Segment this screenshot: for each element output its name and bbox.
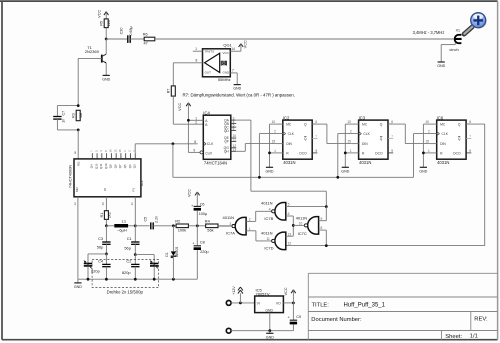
wire IC7B in5 to QA node <box>286 206 327 208</box>
IC2 MC and R tie to ground <box>270 123 283 125</box>
svg-text:15: 15 <box>347 140 351 144</box>
IC IC3 4031N box <box>359 120 388 159</box>
svg-text:OUT: OUT <box>205 70 212 74</box>
svg-text:VCC: VCC <box>284 287 288 295</box>
svg-text:4031N: 4031N <box>283 160 295 165</box>
svg-text:R3: R3 <box>72 113 76 118</box>
IC6 unconnected pins 7 and 9 <box>466 137 471 139</box>
svg-text:6: 6 <box>469 120 471 124</box>
capacitor C5 2.2n <box>135 225 149 227</box>
svg-text:R7: R7 <box>167 89 171 94</box>
svg-text:QH: QH <box>224 150 230 154</box>
svg-text:Q4: Q4 <box>90 164 94 168</box>
wire IC7A out to R4 <box>218 225 232 227</box>
svg-text:Q3: Q3 <box>133 164 137 168</box>
IC3 CLK wire from rail <box>338 133 359 135</box>
svg-text:GND: GND <box>74 285 82 289</box>
resistor R5 120 <box>105 19 107 28</box>
wire pad to regulator <box>231 302 255 304</box>
svg-text:14: 14 <box>231 47 235 51</box>
svg-text:2: 2 <box>350 130 352 134</box>
svg-text:2.2n: 2.2n <box>155 216 159 223</box>
capacitor C7 1n <box>56 106 58 117</box>
svg-text:120: 120 <box>107 20 111 26</box>
svg-text:9: 9 <box>193 149 195 153</box>
svg-text:Q: Q <box>458 137 461 141</box>
wire IC7C in9 to QA node <box>319 220 327 222</box>
node QA IC7B IC7C <box>325 205 328 208</box>
svg-text:C5: C5 <box>143 217 147 222</box>
svg-text:IC7A: IC7A <box>226 230 235 235</box>
svg-text:MR: MR <box>75 187 79 192</box>
svg-text:DCO: DCO <box>375 151 383 155</box>
svg-text:220µ: 220µ <box>200 250 209 254</box>
svg-text:8: 8 <box>321 226 323 230</box>
wire IC7D in13 feedback <box>286 235 294 237</box>
svg-text:Q: Q <box>458 123 461 127</box>
svg-text:Q6: Q6 <box>128 164 132 168</box>
resistor R2 100k <box>176 224 188 228</box>
wire IC1 pin12 to ground rail <box>77 197 79 279</box>
svg-text:Q5: Q5 <box>123 164 127 168</box>
regulator IC5 7805TV box <box>255 296 284 313</box>
node feedback rail junction <box>325 244 328 247</box>
IC6 Q output stub <box>466 123 470 125</box>
svg-text:VCC: VCC <box>98 10 102 18</box>
svg-text:IC3: IC3 <box>359 115 366 120</box>
svg-text:IC6: IC6 <box>437 115 444 120</box>
capacitor C1 56p <box>134 226 136 242</box>
wire QA to gate junction <box>236 119 251 121</box>
svg-text:Document Number:: Document Number: <box>311 317 362 323</box>
wire RC to IC1 pin 9 <box>77 130 79 159</box>
title block frame <box>308 272 497 274</box>
svg-text:DIN: DIN <box>440 142 446 146</box>
regulator GND pin wire <box>269 313 271 331</box>
svg-text:CLR: CLR <box>205 151 212 155</box>
wire IC7B in6 feedback <box>286 215 294 217</box>
svg-text:56k: 56k <box>207 227 213 232</box>
svg-text:11: 11 <box>233 138 237 142</box>
transistor T1 2N2369 <box>105 39 107 54</box>
capacitor C9 polarized <box>292 303 294 320</box>
wire T1 emitter to ground <box>105 63 107 75</box>
svg-text:4011N: 4011N <box>296 216 308 221</box>
svg-text:VI: VI <box>257 302 260 306</box>
resistor R3 1M <box>77 110 79 120</box>
resistor R6 47 <box>144 38 155 40</box>
magnifier zoom icon <box>464 13 487 34</box>
capacitor C8 220u polarized <box>196 226 198 245</box>
X1 ground branch <box>454 43 456 45</box>
QG1 pin 14 VCC <box>230 50 241 52</box>
oscillator QG1 55MHz box <box>203 49 231 77</box>
svg-text:C30: C30 <box>119 28 123 35</box>
svg-text:GND: GND <box>266 169 274 173</box>
ground IC2 <box>266 166 273 168</box>
resistor R1 <box>105 197 107 211</box>
wire IC7C out to feedback column <box>293 224 304 226</box>
svg-text:IC1: IC1 <box>140 180 144 186</box>
IC6 MC and R tie to ground <box>423 123 436 125</box>
svg-text:1/1: 1/1 <box>470 334 478 340</box>
svg-text:VO: VO <box>276 302 281 306</box>
svg-text:IC7B: IC7B <box>264 216 273 221</box>
svg-text:13: 13 <box>288 232 292 236</box>
svg-text:Q: Q <box>304 137 307 141</box>
svg-text:9: 9 <box>391 149 393 153</box>
svg-text:IC4: IC4 <box>203 110 210 115</box>
svg-text:R4: R4 <box>205 219 211 224</box>
wire IC7A in2 to IC7B out <box>246 220 256 222</box>
svg-text:15: 15 <box>426 140 430 144</box>
wire IC1 pin11 column <box>134 197 136 226</box>
svg-text:4011N: 4011N <box>261 230 273 235</box>
svg-text:GND: GND <box>437 64 445 68</box>
svg-text:7: 7 <box>232 69 234 73</box>
ground tank rail <box>77 279 79 283</box>
capacitor C30 0.68u <box>127 35 129 43</box>
svg-text:Q7: Q7 <box>118 164 122 168</box>
svg-text:Q14: Q14 <box>99 163 103 169</box>
ground regulator <box>269 331 271 333</box>
svg-text:IC7C: IC7C <box>298 231 307 236</box>
IC2 Q output stub <box>312 123 316 125</box>
IC IC4 74HCT164N box <box>203 115 231 159</box>
svg-text:C9: C9 <box>296 315 301 319</box>
wire clock distribution rail <box>173 176 414 178</box>
svg-text:2k2: 2k2 <box>107 212 111 218</box>
svg-text:MC: MC <box>440 123 446 127</box>
svg-text:R7: Dämpfungswiderstand. Wert: R7: Dämpfungswiderstand. Wert (ca 0R - 4… <box>183 93 295 98</box>
svg-text:MC: MC <box>286 123 292 127</box>
svg-text:9: 9 <box>315 149 317 153</box>
svg-text:4031N: 4031N <box>437 160 449 165</box>
IC4 pin A wire <box>188 119 203 121</box>
IC IC2 4031N box <box>283 120 312 159</box>
capacitor C3 56p <box>105 226 107 242</box>
svg-text:2N2369: 2N2369 <box>85 49 100 54</box>
wire IC7A in1 to IC7D out <box>246 230 256 232</box>
IC2 unconnected pins 7 and 9 <box>312 137 317 139</box>
svg-text:VCC: VCC <box>178 103 182 111</box>
svg-text:Huff_Puff_35_1: Huff_Puff_35_1 <box>344 303 386 309</box>
node L1 right <box>134 224 137 227</box>
node +12V branch <box>239 302 242 305</box>
svg-text:9: 9 <box>469 149 471 153</box>
svg-text:Q13: Q13 <box>94 163 98 169</box>
IC6 DIN stub <box>430 143 437 145</box>
svg-text:11: 11 <box>267 237 271 241</box>
svg-text:7: 7 <box>315 135 317 139</box>
VCC supply at regulator <box>292 296 294 303</box>
IC2 DIN stub <box>276 143 283 145</box>
page border frame <box>0 0 498 2</box>
svg-text:C1: C1 <box>127 236 132 241</box>
wire R6 to connector X1 <box>155 38 454 40</box>
wire R5 to node <box>105 28 107 39</box>
ground IC6 <box>420 166 427 168</box>
svg-text:10: 10 <box>347 120 351 124</box>
inductor L1 ~6uH <box>106 225 114 227</box>
wire IC2 Q to IC3 DIN <box>312 123 327 125</box>
svg-text:55MHz: 55MHz <box>218 77 231 82</box>
nand gate IC7C 4011N <box>308 217 319 235</box>
node C1 C2 trimmer <box>134 253 137 256</box>
ground T1 emitter <box>103 74 110 76</box>
svg-text:RD: RD <box>77 161 81 166</box>
svg-text:56p: 56p <box>97 245 104 250</box>
svg-text:8: 8 <box>194 140 196 144</box>
node IC4 A VCC <box>187 119 190 122</box>
IC1 top output pins <box>91 153 93 159</box>
svg-text:CLK: CLK <box>288 132 295 136</box>
svg-text:1n: 1n <box>61 119 65 123</box>
svg-text:Q9: Q9 <box>113 164 117 168</box>
svg-text:DIN: DIN <box>362 142 368 146</box>
wire QH to IC2 DIN <box>236 150 245 152</box>
svg-text:P1: P1 <box>132 188 136 192</box>
svg-text:Q8: Q8 <box>109 164 113 168</box>
svg-text:11: 11 <box>130 202 134 205</box>
IC6 CLK wire from rail <box>414 133 437 135</box>
VCC supply for R5 <box>104 12 106 15</box>
svg-text:8: 8 <box>196 59 198 63</box>
svg-text:TITLE:: TITLE: <box>312 302 330 308</box>
svg-text:Q10: Q10 <box>104 163 108 169</box>
svg-text:100k: 100k <box>178 228 186 233</box>
svg-text:VCC: VCC <box>243 40 247 48</box>
wire node to C30 <box>106 38 127 40</box>
svg-text:1: 1 <box>350 149 352 153</box>
svg-text:GND: GND <box>233 87 241 91</box>
svg-text:cinch: cinch <box>449 47 458 52</box>
svg-text:DCO: DCO <box>453 151 461 155</box>
IC3 MC and R tie to ground <box>345 123 358 125</box>
IC4 CLR pin with bubble <box>188 151 200 153</box>
svg-text:0.68µ: 0.68µ <box>129 25 133 35</box>
svg-text:4011N: 4011N <box>223 215 235 220</box>
svg-text:2: 2 <box>274 130 276 134</box>
svg-text:7: 7 <box>469 135 471 139</box>
svg-text:4: 4 <box>269 207 271 211</box>
svg-text:R5: R5 <box>100 21 104 26</box>
trimmer capacitor right <box>135 254 154 256</box>
svg-text:R1: R1 <box>100 213 104 218</box>
svg-text:CLK: CLK <box>207 142 214 146</box>
wire R7 to IC4 B <box>172 96 174 124</box>
svg-text:1: 1 <box>274 149 276 153</box>
node bottom of RC <box>77 129 80 132</box>
svg-text:1: 1 <box>195 47 197 51</box>
wire IC6 Q to feedback rail <box>466 123 485 125</box>
resistor R4 56k <box>206 224 218 228</box>
svg-text:QD: QD <box>224 129 230 133</box>
wire IC3 Q to IC6 DIN <box>388 123 405 125</box>
ground X1 <box>438 61 445 63</box>
svg-text:15: 15 <box>272 140 276 144</box>
node CLK branch <box>172 142 175 145</box>
svg-text:C3: C3 <box>98 236 103 241</box>
svg-text:GND: GND <box>266 335 274 339</box>
node C6 C8 R2 R4 <box>196 224 199 227</box>
svg-text:4011N: 4011N <box>261 201 273 206</box>
svg-text:12: 12 <box>73 202 77 206</box>
svg-text:DCO: DCO <box>299 151 307 155</box>
node IC7C out feedback <box>292 224 295 227</box>
IC3 DIN stub <box>352 143 359 145</box>
+12V supply symbol <box>239 293 241 303</box>
svg-text:6: 6 <box>391 120 393 124</box>
QG1 pin 1 stub <box>193 50 203 52</box>
svg-text:MC: MC <box>362 123 368 127</box>
svg-text:Sheet:: Sheet: <box>445 334 462 340</box>
wire T1 base <box>78 57 102 59</box>
IC IC1 74HCT4060N box <box>74 159 141 197</box>
svg-text:GND: GND <box>102 77 110 81</box>
svg-text:5: 5 <box>288 203 290 207</box>
capacitor C4 820p <box>105 254 107 265</box>
svg-text:GND: GND <box>265 308 273 312</box>
svg-text:3,4MHz - 3,7MHz: 3,4MHz - 3,7MHz <box>413 30 445 35</box>
node VCC C9 <box>292 302 295 305</box>
svg-text:REV:: REV: <box>474 316 488 322</box>
svg-text:6: 6 <box>315 120 317 124</box>
svg-text:7: 7 <box>391 135 393 139</box>
IC3 unconnected pins 7 and 9 <box>388 137 393 139</box>
svg-text:Q: Q <box>304 123 307 127</box>
svg-text:IC7D: IC7D <box>264 246 273 251</box>
svg-text:Drehko 2x 15/500p: Drehko 2x 15/500p <box>107 290 144 295</box>
svg-text:+12V: +12V <box>232 286 236 295</box>
svg-text:R6: R6 <box>143 32 148 36</box>
svg-text:R2: R2 <box>175 219 180 224</box>
nand gate IC7D 4011N <box>275 232 286 250</box>
ground IC3 <box>342 166 349 168</box>
QG1 pin 8 OUT wire <box>173 62 202 64</box>
capacitor C2 820p <box>134 255 136 265</box>
IC IC6 4031N box <box>437 120 466 159</box>
wire bottom ground run <box>231 330 293 332</box>
nand gate IC7B 4011N <box>275 203 286 221</box>
IC2 CLK wire from rail <box>259 133 282 135</box>
wire regulator output <box>283 302 293 304</box>
svg-text:13: 13 <box>233 148 237 152</box>
svg-text:VCC: VCC <box>223 51 230 55</box>
IC3 Q output stub <box>388 123 392 125</box>
svg-text:100µ: 100µ <box>199 212 208 216</box>
trimmer capacitor left <box>88 253 106 255</box>
svg-text:TRI/TS: TRI/TS <box>205 49 215 53</box>
svg-text:C6: C6 <box>200 202 205 206</box>
svg-text:47: 47 <box>144 41 148 45</box>
wire node to C7 R3 loop <box>57 105 78 107</box>
svg-text:C8: C8 <box>200 241 205 245</box>
svg-text:~6µH: ~6µH <box>117 227 127 232</box>
nand gate IC7A 4011N <box>235 217 246 235</box>
svg-text:74HCT4060N: 74HCT4060N <box>69 165 73 188</box>
resistor R7 damping <box>172 86 174 96</box>
pad X2 +12V input <box>226 301 231 306</box>
wire IC7C in8 to feedback rail <box>319 229 327 231</box>
svg-text:10: 10 <box>299 222 303 226</box>
svg-text:QF: QF <box>224 140 229 144</box>
svg-text:IC2: IC2 <box>283 115 290 120</box>
wire ground rail of tank <box>78 278 197 280</box>
svg-text:GND: GND <box>341 169 349 173</box>
wire IC1 output Q3 to clock net <box>134 144 136 153</box>
svg-text:VCC: VCC <box>188 189 192 197</box>
svg-text:Q: Q <box>380 123 383 127</box>
varactor diode D1 BB505 <box>172 226 174 251</box>
svg-text:GND: GND <box>223 70 231 74</box>
svg-text:10: 10 <box>426 120 430 124</box>
svg-text:56p: 56p <box>124 245 130 250</box>
node C3 C4 trimmer <box>105 253 108 256</box>
QG1 crystal symbol <box>220 61 222 66</box>
svg-text:CLK: CLK <box>363 132 370 136</box>
svg-text:Q: Q <box>380 137 383 141</box>
node D1 R2 <box>172 224 175 227</box>
svg-text:X1: X1 <box>456 29 460 33</box>
svg-text:820p: 820p <box>122 270 131 275</box>
node T1 collector junction <box>105 38 108 41</box>
svg-text:C7: C7 <box>61 111 65 116</box>
svg-text:1: 1 <box>428 149 430 153</box>
dashed box Drehko <box>92 259 159 287</box>
VCC supply above C6 <box>195 192 197 195</box>
svg-text:74HCT164N: 74HCT164N <box>204 160 227 165</box>
svg-text:2: 2 <box>195 121 197 125</box>
QG1 pin 7 GND <box>230 72 237 74</box>
connector X1 cinch <box>455 35 462 43</box>
svg-text:1M: 1M <box>79 113 83 118</box>
svg-text:6: 6 <box>288 212 290 216</box>
svg-text:6: 6 <box>233 127 235 131</box>
node regulator ground <box>268 329 271 332</box>
svg-text:10: 10 <box>272 120 276 124</box>
svg-text:2: 2 <box>428 130 430 134</box>
node top of RC <box>77 104 80 107</box>
capacitor C6 100u polarized <box>194 206 201 207</box>
svg-text:9: 9 <box>74 151 76 155</box>
svg-text:D1: D1 <box>165 252 169 256</box>
svg-text:L1: L1 <box>122 219 127 224</box>
svg-text:7805TV: 7805TV <box>256 291 270 296</box>
svg-text:BB505: BB505 <box>175 247 179 257</box>
svg-text:12: 12 <box>288 242 292 246</box>
svg-text:DIN: DIN <box>286 142 292 146</box>
svg-text:CLK: CLK <box>442 132 449 136</box>
VCC supply for IC4 <box>186 103 188 106</box>
wire feedback rail to gates <box>286 245 485 247</box>
svg-text:GND: GND <box>419 169 427 173</box>
node L1 left <box>105 224 108 227</box>
pad X3 ground input <box>226 328 231 333</box>
svg-text:4031N: 4031N <box>359 160 371 165</box>
svg-text:10: 10 <box>101 202 105 206</box>
